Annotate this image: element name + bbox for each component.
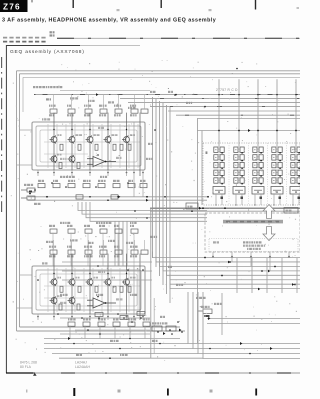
board boundary dash-dot line bottom — [6, 372, 33, 374]
VR box left verticals — [197, 119, 199, 344]
slide potentiometer VR4 — [271, 146, 283, 209]
VR assembly label A — [206, 151, 208, 154]
slide potentiometer VR1 — [213, 146, 225, 209]
bottom-right upper pair — [207, 318, 300, 320]
mid bus resistor boxes — [76, 195, 83, 199]
left link wires upper — [20, 129, 32, 131]
mid bus wires — [28, 196, 207, 198]
registration tick bottom-1 — [26, 390, 27, 393]
alignment triangle bottom — [33, 373, 37, 376]
emitter resistors lower — [59, 304, 80, 310]
GEQ assembly box border — [6, 46, 80, 374]
component legs upper — [48, 95, 145, 168]
lower cluster header labels — [46, 239, 133, 244]
scan speckle noise — [11, 60, 297, 361]
registration mark small top a — [117, 9, 120, 11]
transistor row upper Q1-Q5 — [50, 136, 130, 144]
left border component labels — [24, 184, 33, 186]
op-amp lower — [87, 298, 116, 308]
right verticals below bus — [222, 258, 297, 335]
registration tick bottom-4 — [255, 389, 257, 396]
upper cluster header labels — [33, 86, 114, 104]
bottom extra component boxes — [60, 312, 150, 331]
lower cluster resistor row A — [50, 229, 138, 233]
inter-cluster verticals — [133, 176, 135, 197]
bus wire bottom pair — [17, 330, 186, 332]
registration tick top-3 — [255, 0, 256, 10]
transistor leads upper — [54, 113, 140, 176]
registration tick top-2 — [161, 0, 162, 8]
lower bus left extensions — [62, 261, 152, 263]
registration mark small top b — [209, 9, 212, 11]
scattered small labels — [34, 91, 222, 356]
bias resistors lower — [60, 286, 131, 292]
bottom resistor labels — [68, 318, 76, 320]
inner labels upper — [42, 118, 122, 160]
display window bar — [223, 220, 283, 224]
display block dashed box — [205, 213, 300, 252]
flat cable label — [50, 31, 55, 33]
bias resistors upper — [60, 144, 131, 150]
emitter resistors upper — [59, 163, 80, 169]
display text lines — [213, 241, 265, 250]
inner labels lower — [42, 262, 123, 304]
VR assembly dotted box — [203, 143, 300, 205]
registration mark small top d — [32, 0, 33, 2]
registration tick bottom-2 — [73, 388, 75, 396]
page number box Z76 — [0, 0, 28, 12]
transistor pair lower lower — [50, 297, 58, 305]
feedback loop outer lower — [32, 266, 145, 314]
registration mark bottom b — [210, 390, 213, 393]
feedback loop third upper — [40, 130, 137, 162]
connector cluster lower-left — [152, 322, 181, 335]
VR box outer top wire — [197, 118, 300, 120]
svg-text:80 FLA: 80 FLA — [20, 365, 32, 369]
bus below VR junction dots — [199, 207, 271, 212]
display feed arrowheads — [212, 255, 291, 257]
stub wires lower — [38, 314, 143, 320]
bottom cluster junction dots — [99, 321, 183, 339]
left link wires lower — [20, 274, 32, 276]
feedback loop inner upper — [36, 126, 141, 166]
feedback loop outer upper — [32, 122, 145, 170]
display arrow up — [263, 205, 275, 219]
fader separator dotted lines — [229, 143, 287, 205]
component legs lower — [48, 240, 145, 312]
slide potentiometer VR5 — [290, 146, 302, 209]
transistor ref labels upper — [57, 134, 135, 155]
resistor row upper — [50, 109, 148, 113]
transistor pair lower upper — [50, 155, 58, 163]
bus below VR box thick — [150, 207, 300, 209]
display connector box — [284, 208, 298, 214]
mid resistor row — [38, 184, 147, 188]
registration tick top-1 — [73, 0, 74, 8]
resistor row labels lower — [49, 246, 138, 258]
svg-text:3 AF assembly, HEADPHONE asse: 3 AF assembly, HEADPHONE assembly, VR as… — [2, 17, 216, 23]
transistor row lower Q1-Q5 — [50, 278, 130, 286]
bottom resistor row — [68, 322, 150, 326]
bottom long bus wires — [44, 343, 188, 345]
right small component cluster upper — [198, 306, 212, 317]
op-amp upper — [87, 157, 116, 167]
flat cable hatch bar — [3, 37, 47, 39]
bottom cluster wires — [60, 333, 150, 335]
transistor leads lower — [54, 254, 140, 320]
left border components — [21, 188, 36, 200]
bus below VR box thin — [150, 210, 300, 212]
scattered junction dots — [37, 68, 238, 323]
mid resistor labels — [38, 180, 146, 182]
lower cluster row A labels — [49, 225, 134, 227]
inner link wires upper — [44, 142, 140, 154]
bottom bus junction dots — [73, 343, 251, 359]
registration mark bottom a — [118, 390, 121, 393]
svg-text:LA24AAH: LA24AAH — [75, 365, 90, 369]
display text box dotted — [209, 239, 298, 252]
bus wire top triple — [17, 70, 301, 72]
lower bus junction dots and arrows — [204, 257, 296, 291]
slide potentiometer VR2 — [233, 146, 245, 209]
display drop wires — [213, 252, 289, 271]
svg-text:GEQ assembly (AXX7068): GEQ assembly (AXX7068) — [10, 49, 85, 55]
transistor ref labels lower — [57, 277, 136, 297]
display arrow down — [263, 227, 275, 241]
connector J15 box — [186, 203, 198, 212]
registration mark small top c — [297, 7, 300, 9]
nested corner wires bottom-right — [188, 292, 300, 359]
lower cluster row A stubs — [53, 233, 134, 266]
bottom cluster stubs — [70, 326, 145, 339]
junction dots lower — [37, 273, 144, 318]
board boundary dash-dot line left — [1, 57, 3, 212]
svg-text:Z76: Z76 — [3, 3, 21, 12]
inner link wires lower — [44, 286, 140, 298]
bus wire left verticals — [16, 71, 18, 331]
bus bundle mid verticals — [152, 97, 154, 258]
bus bundle upper horizontals — [60, 90, 150, 92]
fader drop wires — [218, 79, 297, 146]
registration tick bottom-3 — [167, 389, 169, 396]
junction dots upper — [37, 129, 144, 174]
mid wire bundle to display — [78, 202, 207, 221]
feedback loop inner lower — [36, 270, 141, 310]
resistor row lower — [50, 250, 148, 254]
feedback loop third lower — [40, 274, 137, 306]
scattered arrowheads — [68, 93, 272, 350]
VR box inner top wire — [197, 130, 300, 132]
mid bus junction dots — [46, 196, 209, 198]
sub-board outline verticals — [150, 208, 152, 358]
lower bus bundle fanout — [153, 252, 301, 289]
resistor row labels upper — [49, 105, 137, 117]
mid bundle down-corners — [115, 222, 127, 267]
slide potentiometer VR3 — [252, 146, 264, 209]
stub wires upper — [38, 170, 143, 176]
board boundary dash-dot line top — [57, 37, 300, 39]
